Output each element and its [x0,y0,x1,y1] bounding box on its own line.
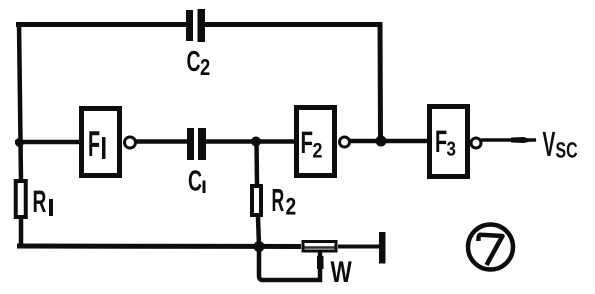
svg-text:SC: SC [556,138,578,163]
svg-text:W: W [331,256,353,289]
svg-text:R: R [272,182,285,218]
svg-text:F: F [88,123,100,164]
svg-text:2: 2 [313,140,323,163]
svg-text:F: F [435,124,447,159]
svg-text:2: 2 [286,194,297,221]
svg-text:C: C [188,166,202,198]
svg-text:R: R [33,184,47,219]
svg-text:C: C [187,46,201,78]
svg-text:F: F [301,125,313,160]
svg-text:3: 3 [447,139,456,161]
svg-text:V: V [543,125,556,164]
svg-text:2: 2 [200,54,210,80]
